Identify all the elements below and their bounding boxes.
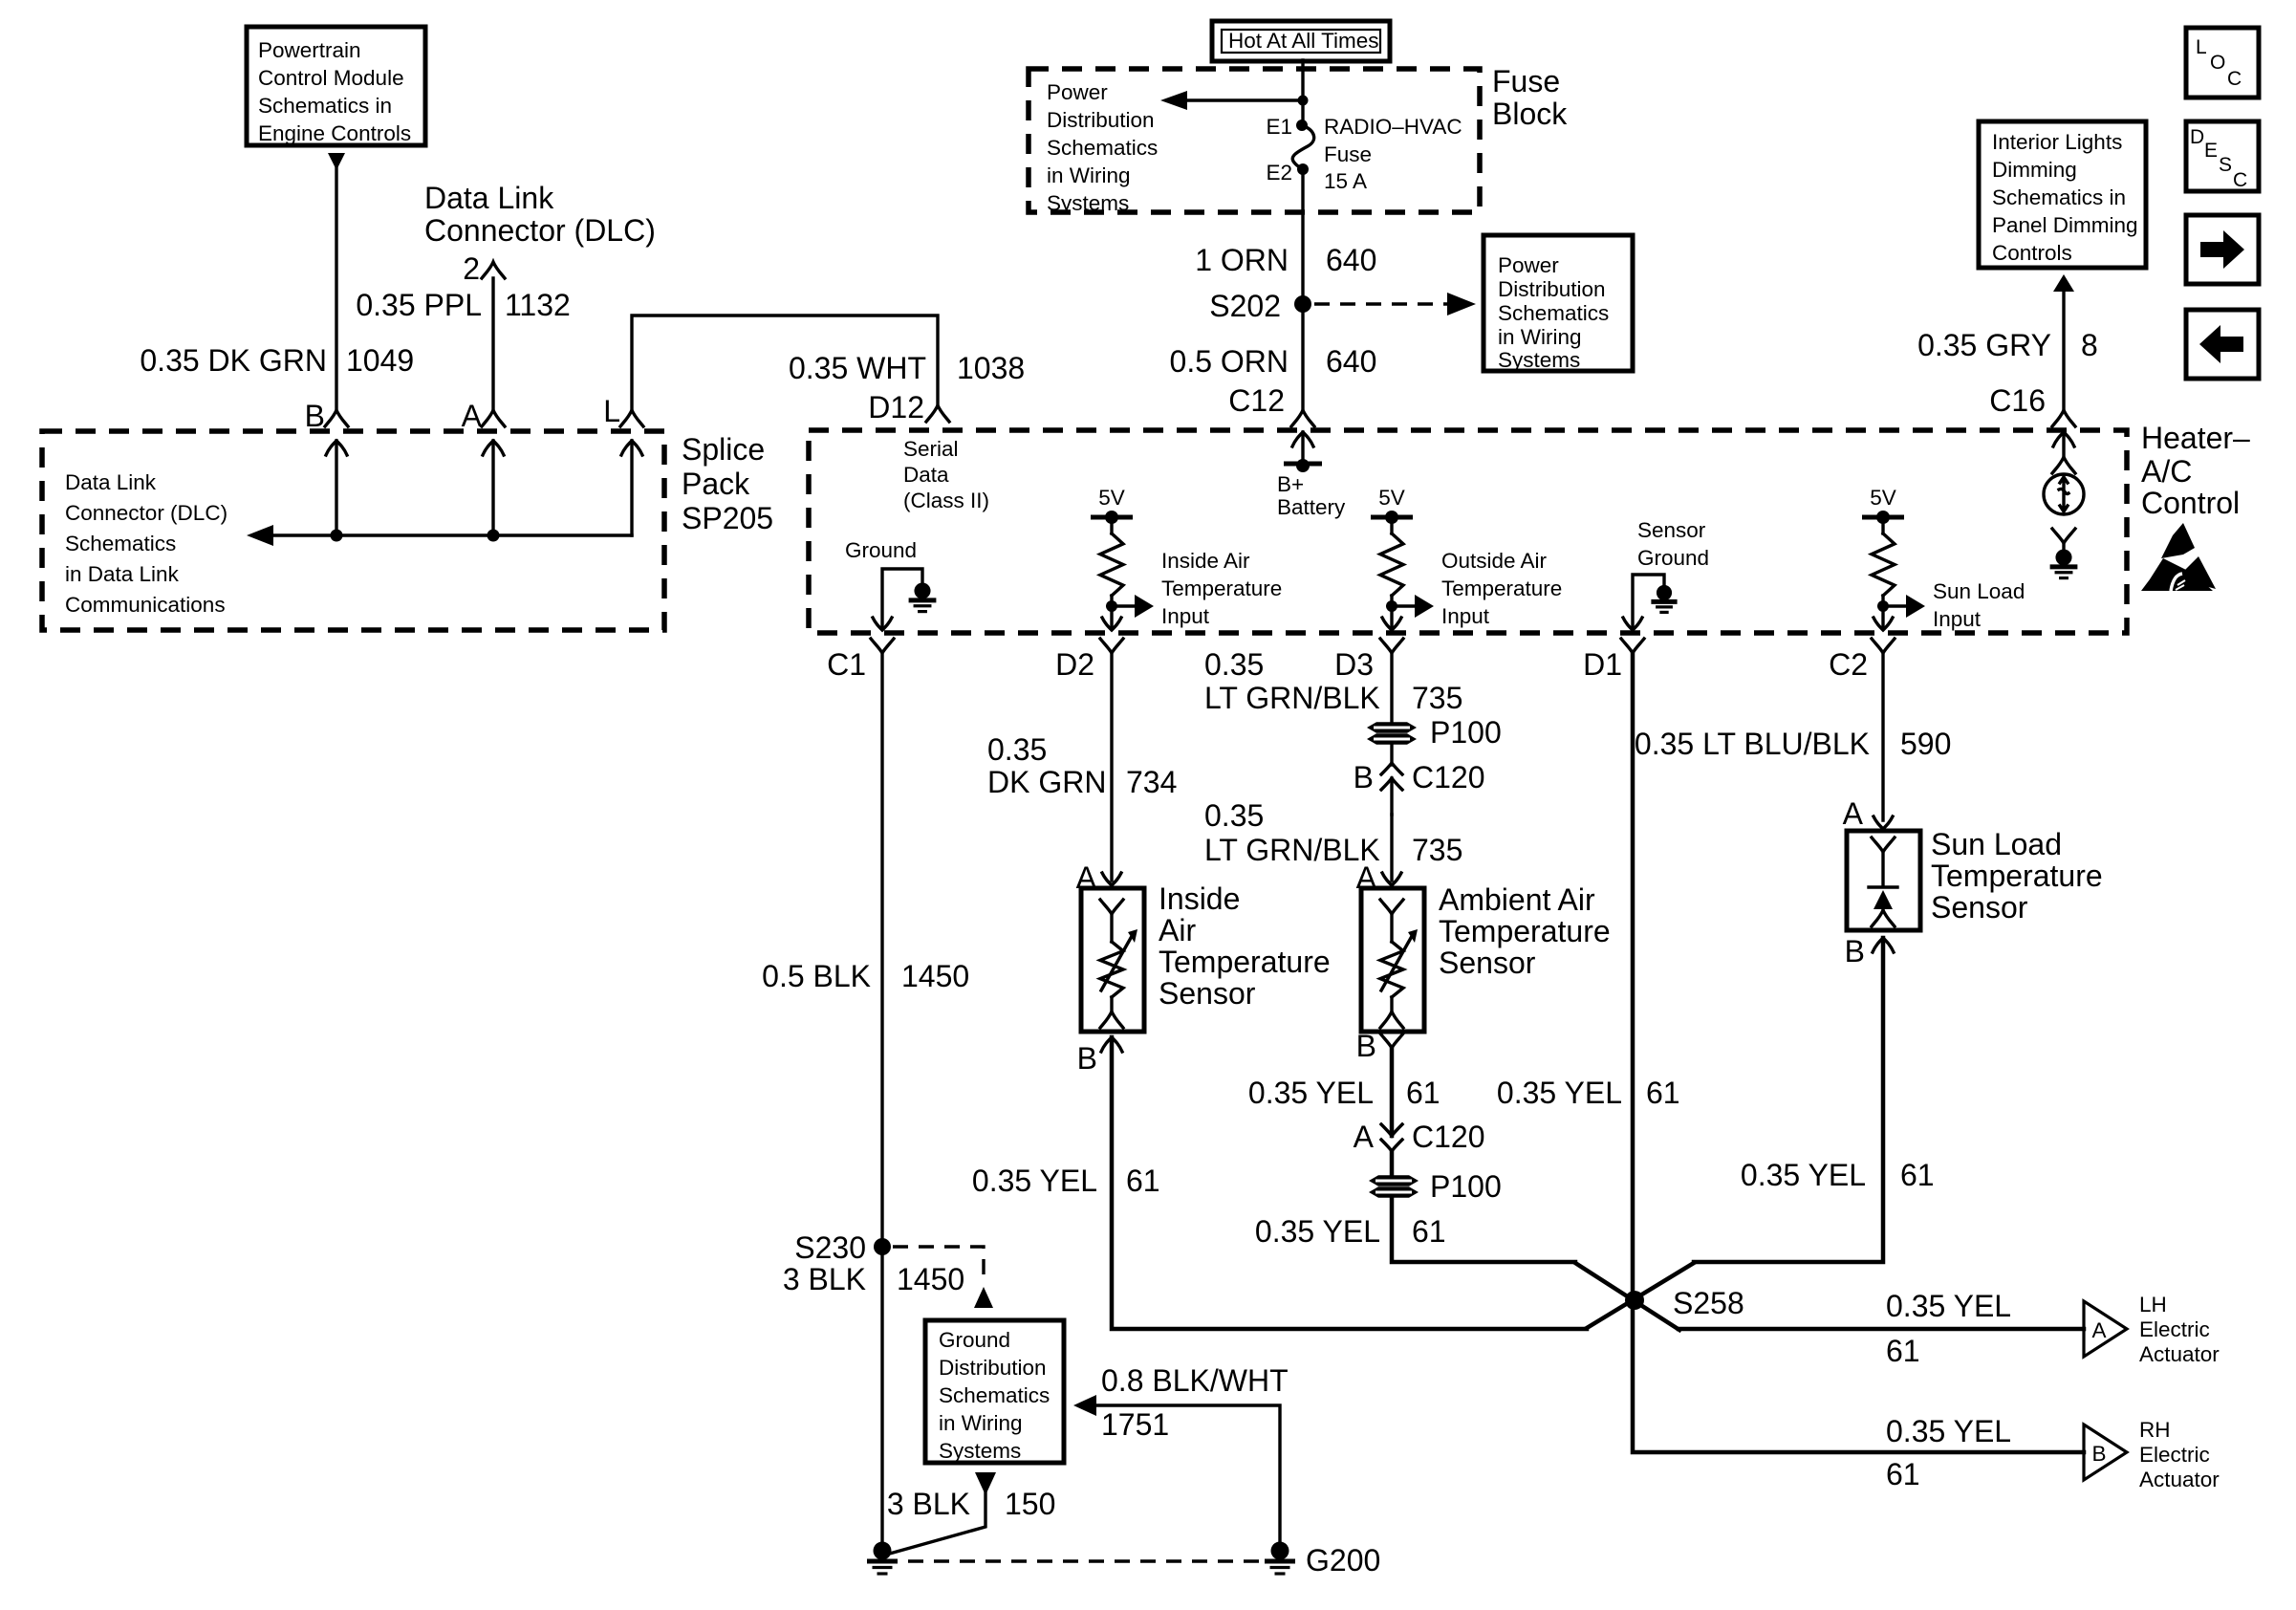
splice junction A <box>487 530 500 542</box>
dashed arrow to Power Distribution box <box>1314 293 1476 315</box>
svg-text:E1: E1 <box>1266 115 1292 139</box>
inside air temperature sensor <box>1081 888 1144 1032</box>
svg-text:Connector (DLC): Connector (DLC) <box>424 213 656 248</box>
svg-text:Schematics in: Schematics in <box>258 94 392 118</box>
svg-text:E2: E2 <box>1266 161 1292 185</box>
label 3 BLK 1450 <box>783 1262 964 1296</box>
icon box LOC <box>2186 28 2259 98</box>
svg-text:Temperature: Temperature <box>1439 914 1611 948</box>
svg-text:0.35 WHT: 0.35 WHT <box>789 351 926 385</box>
svg-text:61: 61 <box>1126 1164 1160 1198</box>
svg-text:Electric: Electric <box>2139 1443 2210 1467</box>
svg-text:Sun Load: Sun Load <box>1933 579 2025 603</box>
svg-text:Interior Lights: Interior Lights <box>1992 130 2122 154</box>
0.8 BLK/WHT wire from ground distribution box to G200 <box>1073 1395 1280 1543</box>
svg-text:Systems: Systems <box>939 1439 1021 1463</box>
label Data Link Connector (DLC) <box>424 181 656 248</box>
svg-text:Sensor: Sensor <box>1931 890 2028 925</box>
junction at feed branch <box>1298 96 1309 106</box>
svg-text:LT GRN/BLK: LT GRN/BLK <box>1204 833 1380 867</box>
ambient air temperature sensor label <box>1439 882 1611 980</box>
connector pin L <box>603 394 643 428</box>
sensor ground internal (D1) <box>1623 518 1709 630</box>
svg-text:B: B <box>2091 1442 2106 1466</box>
svg-text:150: 150 <box>1005 1487 1055 1521</box>
connector C1 <box>827 639 894 682</box>
fuse terminal E1 <box>1266 115 1308 139</box>
5V pullup for sun load input <box>1862 486 1925 630</box>
label 0.35 DK GRN 734 <box>987 732 1177 799</box>
svg-text:0.5 ORN: 0.5 ORN <box>1170 344 1289 379</box>
label Fuse Block <box>1492 64 1568 131</box>
svg-text:S: S <box>2219 154 2232 176</box>
svg-text:C1: C1 <box>827 647 866 682</box>
label 0.35 YEL 61 (sun load B) <box>1741 1158 1935 1192</box>
svg-text:RADIO–HVAC: RADIO–HVAC <box>1324 115 1462 139</box>
svg-text:61: 61 <box>1900 1158 1935 1192</box>
LH electric actuator pin A <box>2084 1301 2127 1357</box>
connector C2 <box>1829 639 1895 682</box>
connector D1 <box>1583 639 1644 682</box>
svg-text:in Wiring: in Wiring <box>939 1411 1023 1435</box>
label 0.35 GRY 8 <box>1917 328 2098 362</box>
label 0.8 BLK/WHT 1751 <box>1101 1363 1289 1442</box>
svg-text:D: D <box>2190 126 2204 148</box>
svg-text:0.35: 0.35 <box>1204 647 1264 682</box>
label 0.35 YEL 61 (RH) <box>1886 1414 2011 1491</box>
label 0.35 YEL 61 (below P100) <box>1255 1214 1446 1249</box>
svg-text:1038: 1038 <box>957 351 1025 385</box>
svg-text:C12: C12 <box>1228 383 1285 418</box>
svg-text:S202: S202 <box>1209 289 1281 323</box>
fuse block text: Power Distribution Schematics in Wiring Systems <box>1047 80 1158 215</box>
svg-text:Data Link: Data Link <box>65 470 157 494</box>
svg-text:S258: S258 <box>1673 1286 1744 1320</box>
svg-text:Distribution: Distribution <box>939 1356 1047 1380</box>
svg-text:640: 640 <box>1326 243 1376 277</box>
wire 61 from sun load B to S258 <box>1694 938 1883 1262</box>
svg-text:Outside Air: Outside Air <box>1441 549 1548 573</box>
svg-text:1450: 1450 <box>901 959 969 993</box>
svg-text:B: B <box>1845 934 1865 968</box>
connector pin A <box>462 399 505 433</box>
wire 150 to ground <box>886 1491 986 1555</box>
svg-text:61: 61 <box>1886 1334 1920 1368</box>
svg-text:1049: 1049 <box>346 343 414 378</box>
label Heater-A/C Control <box>2141 421 2250 520</box>
ESD susceptibility logo <box>2141 523 2216 591</box>
icon box left arrow <box>2186 310 2259 379</box>
svg-text:P100: P100 <box>1430 715 1502 750</box>
svg-text:E: E <box>2204 140 2218 162</box>
svg-text:in Wiring: in Wiring <box>1047 163 1131 187</box>
svg-text:0.35 GRY: 0.35 GRY <box>1917 328 2051 362</box>
wire 61 from inside sensor B to S258 <box>1112 1037 1587 1329</box>
svg-text:734: 734 <box>1126 765 1177 799</box>
splice box text: Data Link Connector (DLC) Schematics in Data Link Communications <box>65 470 227 617</box>
label 0.35 DK GRN 1049 <box>140 343 414 378</box>
splice bus wire with left arrow <box>247 525 632 546</box>
ambient air temperature sensor <box>1361 888 1424 1032</box>
label LH Electric Actuator <box>2139 1293 2220 1366</box>
dashed ground bus to G200 <box>908 1559 1262 1562</box>
pin B sun load sensor <box>1845 934 1894 968</box>
svg-text:735: 735 <box>1412 681 1462 715</box>
svg-text:in Wiring: in Wiring <box>1498 325 1582 349</box>
svg-text:Inside: Inside <box>1159 881 1240 916</box>
pin B inside sensor <box>1077 1037 1122 1076</box>
reference box: Powertrain Control Module Schematics in Engine Controls <box>247 27 425 145</box>
wire from Hot At All Times <box>1301 60 1304 125</box>
svg-text:15 A: 15 A <box>1324 169 1367 193</box>
svg-text:Connector (DLC): Connector (DLC) <box>65 501 227 525</box>
svg-text:Splice: Splice <box>682 432 765 467</box>
wire to LH actuator <box>1679 1327 2084 1332</box>
svg-text:DK GRN: DK GRN <box>987 765 1106 799</box>
svg-text:0.35 DK GRN: 0.35 DK GRN <box>140 343 327 378</box>
svg-text:S230: S230 <box>794 1230 866 1265</box>
splice junction B <box>331 530 343 542</box>
pin A ambient sensor <box>1356 860 1401 895</box>
svg-text:Distribution: Distribution <box>1047 108 1155 132</box>
connector C16 <box>1989 383 2075 426</box>
svg-text:Block: Block <box>1492 97 1568 131</box>
splice S258 <box>1625 1286 1744 1320</box>
svg-text:B: B <box>1077 1041 1097 1076</box>
svg-text:Schematics: Schematics <box>65 532 176 555</box>
wire 735 from D3 to P100 <box>1390 653 1393 723</box>
wire 1450 from C1 to ground <box>880 653 883 1543</box>
svg-text:Schematics: Schematics <box>1047 136 1158 160</box>
connector D12 <box>868 390 949 424</box>
svg-text:0.8 BLK/WHT: 0.8 BLK/WHT <box>1101 1363 1289 1398</box>
fuse block dashed box <box>1029 69 1480 212</box>
label 0.5 BLK 1450 <box>762 959 969 993</box>
C16 internal lamp branch <box>2044 432 2084 578</box>
svg-text:3 BLK: 3 BLK <box>783 1262 866 1296</box>
reference box: Ground Distribution Schematics in Wiring Systems <box>925 1320 1064 1463</box>
svg-text:Ambient Air: Ambient Air <box>1439 882 1595 917</box>
svg-text:G200: G200 <box>1306 1543 1380 1577</box>
svg-text:0.35: 0.35 <box>1204 798 1264 833</box>
svg-text:0.35 YEL: 0.35 YEL <box>1886 1289 2011 1323</box>
svg-text:Sensor: Sensor <box>1439 946 1536 980</box>
label 0.35 YEL 61 (ambient B) <box>1248 1076 1440 1110</box>
svg-text:0.5 BLK: 0.5 BLK <box>762 959 871 993</box>
svg-text:590: 590 <box>1900 727 1951 761</box>
sun load temperature sensor label <box>1931 827 2103 925</box>
splice pack SP205 dashed box <box>42 431 664 630</box>
outside air temperature input label <box>1441 549 1562 628</box>
svg-text:61: 61 <box>1646 1076 1680 1110</box>
RADIO-HVAC fuse element <box>1292 125 1313 169</box>
label 0.35 LT BLU/BLK 590 <box>1635 727 1951 761</box>
sun load temperature sensor <box>1847 831 1920 930</box>
svg-text:Input: Input <box>1933 607 1982 631</box>
S258 crossing wires <box>1575 1263 1679 1330</box>
svg-text:Temperature: Temperature <box>1159 945 1331 979</box>
label 0.35 YEL 61 (D1) <box>1497 1076 1680 1110</box>
RH electric actuator pin B <box>2084 1425 2127 1480</box>
Hot At All Times box <box>1212 21 1390 61</box>
connector C12 <box>1228 383 1314 426</box>
wire to C120 <box>1390 745 1393 765</box>
svg-text:Power: Power <box>1047 80 1108 104</box>
wire from pin L to D12 <box>632 315 938 411</box>
wire 640 from fuse to C12 <box>1301 169 1304 411</box>
icon box right arrow <box>2186 215 2259 284</box>
svg-text:5V: 5V <box>1870 486 1896 510</box>
wire 590 from C2 to sun load sensor <box>1881 653 1884 820</box>
wire 734 from D2 to inside sensor <box>1110 653 1113 881</box>
svg-text:Ground: Ground <box>939 1328 1010 1352</box>
wire 1049 to pin B <box>335 168 337 411</box>
svg-text:A: A <box>462 399 483 433</box>
svg-text:0.35 YEL: 0.35 YEL <box>972 1164 1097 1198</box>
svg-text:Controls: Controls <box>1992 241 2072 265</box>
svg-text:A: A <box>1354 1120 1375 1154</box>
reference box: Power Distribution Schematics in Wiring Systems <box>1484 235 1633 372</box>
svg-text:0.35 LT BLU/BLK: 0.35 LT BLU/BLK <box>1635 727 1870 761</box>
svg-text:Data: Data <box>903 463 949 487</box>
svg-text:Schematics: Schematics <box>939 1383 1050 1407</box>
wire to P100 lower <box>1390 1151 1395 1175</box>
svg-text:D3: D3 <box>1334 647 1374 682</box>
arrow from PCM box <box>328 153 345 170</box>
wire 735 from C120 to ambient sensor <box>1390 815 1393 881</box>
svg-text:P100: P100 <box>1430 1169 1502 1204</box>
svg-text:0.35 YEL: 0.35 YEL <box>1497 1076 1622 1110</box>
svg-text:61: 61 <box>1406 1076 1440 1110</box>
svg-text:Control Module: Control Module <box>258 66 404 90</box>
pin A sun load sensor <box>1843 796 1893 831</box>
svg-text:5V: 5V <box>1098 486 1125 510</box>
label 1 ORN 640 <box>1195 243 1376 277</box>
svg-text:B: B <box>1356 1029 1376 1063</box>
pin A inside sensor <box>1076 860 1121 895</box>
svg-text:(Class II): (Class II) <box>903 489 989 512</box>
svg-text:Hot At All Times: Hot At All Times <box>1228 29 1379 53</box>
feed branch wire with left arrow <box>1160 91 1303 110</box>
connector pin B <box>305 399 348 433</box>
svg-text:0.35 YEL: 0.35 YEL <box>1886 1414 2011 1448</box>
inside air temperature sensor label <box>1159 881 1331 1011</box>
wire 61 from D1 through S258 to RH actuator <box>1633 653 2084 1452</box>
svg-text:L: L <box>2196 36 2207 58</box>
svg-text:3 BLK: 3 BLK <box>887 1487 970 1521</box>
ground internal (C1) <box>845 538 936 630</box>
svg-text:Temperature: Temperature <box>1161 577 1282 600</box>
pin B ambient sensor <box>1356 1029 1403 1063</box>
sun load input label <box>1933 579 2025 631</box>
svg-text:A: A <box>1843 796 1864 831</box>
svg-text:1132: 1132 <box>505 288 571 322</box>
svg-text:5V: 5V <box>1378 486 1405 510</box>
svg-text:C120: C120 <box>1412 760 1485 794</box>
svg-text:640: 640 <box>1326 344 1376 379</box>
5V pullup for outside air temp input <box>1371 486 1434 630</box>
label RADIO-HVAC Fuse 15 A <box>1324 115 1462 193</box>
svg-text:B+: B+ <box>1277 472 1304 496</box>
svg-text:Temperature: Temperature <box>1441 577 1562 600</box>
wire 1132 from pin 2 to pin A <box>491 278 494 411</box>
svg-text:Actuator: Actuator <box>2139 1342 2220 1366</box>
Heater-A/C Control dashed box <box>809 430 2127 633</box>
in-line connector C120 pin B <box>1354 760 1485 815</box>
svg-text:D12: D12 <box>868 390 924 424</box>
svg-text:A/C: A/C <box>2141 454 2192 489</box>
svg-text:Schematics: Schematics <box>1498 301 1609 325</box>
label 0.35 YEL 61 (LH) <box>1886 1289 2011 1368</box>
svg-text:Communications: Communications <box>65 593 226 617</box>
svg-text:Ground: Ground <box>845 538 917 562</box>
svg-text:B: B <box>1354 760 1374 794</box>
svg-text:Sensor: Sensor <box>1159 976 1256 1011</box>
ground symbol left <box>874 1542 892 1560</box>
icon box DESC <box>2186 121 2259 191</box>
svg-text:Systems: Systems <box>1498 348 1580 372</box>
svg-text:Data Link: Data Link <box>424 181 554 215</box>
svg-text:Temperature: Temperature <box>1931 859 2103 893</box>
svg-text:LT GRN/BLK: LT GRN/BLK <box>1204 681 1380 715</box>
label 0.35 PPL 1132 <box>356 288 570 322</box>
grommet P100 (lower) <box>1369 1169 1502 1204</box>
label Splice Pack SP205 <box>682 432 773 535</box>
svg-text:SP205: SP205 <box>682 501 773 535</box>
label 0.35 LT GRN/BLK 735 (lower) <box>1204 798 1462 867</box>
arrow out of ground distribution box bottom <box>975 1472 996 1495</box>
reference box: Interior Lights Dimming Schematics in Panel Dimming Controls <box>1979 121 2146 268</box>
svg-text:C2: C2 <box>1829 647 1868 682</box>
label 3 BLK 150 <box>887 1487 1056 1521</box>
wire 61 from P100 to S258 <box>1392 1198 1575 1262</box>
svg-text:735: 735 <box>1412 833 1462 867</box>
arrow into Interior Lights box <box>2053 274 2074 292</box>
splice internal wire B <box>326 441 347 535</box>
svg-text:A: A <box>2091 1318 2106 1342</box>
svg-text:1751: 1751 <box>1101 1407 1169 1442</box>
svg-text:in Data Link: in Data Link <box>65 562 180 586</box>
svg-text:0.35 YEL: 0.35 YEL <box>1255 1214 1380 1249</box>
svg-text:1450: 1450 <box>897 1262 964 1296</box>
svg-text:Dimming: Dimming <box>1992 158 2077 182</box>
splice S202 <box>1209 289 1311 323</box>
svg-text:Air: Air <box>1159 913 1196 947</box>
label 0.35 YEL 61 (inside sensor B) <box>972 1164 1160 1198</box>
label 0.5 ORN 640 <box>1170 344 1377 379</box>
DLC pin 2 connector <box>463 251 505 286</box>
svg-text:Sun Load: Sun Load <box>1931 827 2062 861</box>
svg-text:Engine Controls: Engine Controls <box>258 121 411 145</box>
svg-text:C: C <box>2233 169 2247 191</box>
label 0.35 WHT 1038 <box>789 351 1025 385</box>
svg-text:Fuse: Fuse <box>1492 64 1560 98</box>
svg-text:Heater–: Heater– <box>2141 421 2250 455</box>
connector D3 <box>1334 639 1403 682</box>
svg-text:B: B <box>305 399 325 433</box>
svg-text:Panel Dimming: Panel Dimming <box>1992 213 2138 237</box>
fuse terminal E2 <box>1266 161 1309 185</box>
svg-text:0.35 YEL: 0.35 YEL <box>1248 1076 1374 1110</box>
svg-text:C120: C120 <box>1412 1120 1485 1154</box>
label 0.35 LT GRN/BLK 735 (upper) <box>1204 647 1462 715</box>
splice internal wire A <box>483 441 504 535</box>
B+ battery internal <box>1277 432 1346 519</box>
svg-text:Electric: Electric <box>2139 1317 2210 1341</box>
splice internal wire L <box>621 441 642 535</box>
svg-text:2: 2 <box>463 251 480 286</box>
serial data label <box>903 437 989 512</box>
svg-text:C16: C16 <box>1989 383 2046 418</box>
svg-text:0.35 PPL: 0.35 PPL <box>356 288 482 322</box>
svg-text:Fuse: Fuse <box>1324 142 1372 166</box>
svg-text:Input: Input <box>1441 604 1490 628</box>
svg-text:61: 61 <box>1886 1457 1920 1491</box>
wire <box>1587 1263 1694 1328</box>
inside air temperature input label <box>1161 549 1282 628</box>
in-line connector C120 pin A <box>1354 1120 1485 1154</box>
wire 8 from C16 <box>2062 290 2065 411</box>
svg-text:RH: RH <box>2139 1418 2171 1442</box>
svg-text:1 ORN: 1 ORN <box>1195 243 1289 277</box>
svg-text:Sensor: Sensor <box>1637 518 1706 542</box>
svg-text:8: 8 <box>2081 328 2098 362</box>
label RH Electric Actuator <box>2139 1418 2220 1491</box>
svg-text:L: L <box>603 394 620 428</box>
dashed stub from S230 to ground distribution box <box>893 1247 993 1308</box>
svg-text:Power: Power <box>1498 253 1559 277</box>
svg-text:0.35 YEL: 0.35 YEL <box>1741 1158 1866 1192</box>
ground G200 <box>1265 1542 1380 1578</box>
svg-text:0.35: 0.35 <box>987 732 1047 767</box>
svg-text:D1: D1 <box>1583 647 1622 682</box>
svg-text:Control: Control <box>2141 486 2240 520</box>
grommet P100 (upper) <box>1367 715 1502 750</box>
svg-text:Pack: Pack <box>682 467 750 501</box>
svg-text:D2: D2 <box>1055 647 1094 682</box>
svg-text:Actuator: Actuator <box>2139 1468 2220 1491</box>
svg-text:Ground: Ground <box>1637 546 1709 570</box>
svg-text:Distribution: Distribution <box>1498 277 1606 301</box>
svg-text:Inside Air: Inside Air <box>1161 549 1250 573</box>
svg-text:Serial: Serial <box>903 437 959 461</box>
splice S230 <box>794 1230 891 1265</box>
svg-text:Systems: Systems <box>1047 191 1129 215</box>
svg-text:LH: LH <box>2139 1293 2167 1316</box>
svg-text:61: 61 <box>1412 1214 1446 1249</box>
5V pullup for inside air temp input <box>1091 486 1154 630</box>
wire 61 from ambient B to C120 A <box>1390 1048 1395 1136</box>
connector D2 <box>1055 639 1123 682</box>
svg-text:Input: Input <box>1161 604 1210 628</box>
svg-text:C: C <box>2227 68 2242 90</box>
svg-text:Powertrain: Powertrain <box>258 38 361 62</box>
svg-text:O: O <box>2210 52 2225 74</box>
svg-text:Battery: Battery <box>1277 495 1346 519</box>
svg-text:Schematics in: Schematics in <box>1992 185 2126 209</box>
